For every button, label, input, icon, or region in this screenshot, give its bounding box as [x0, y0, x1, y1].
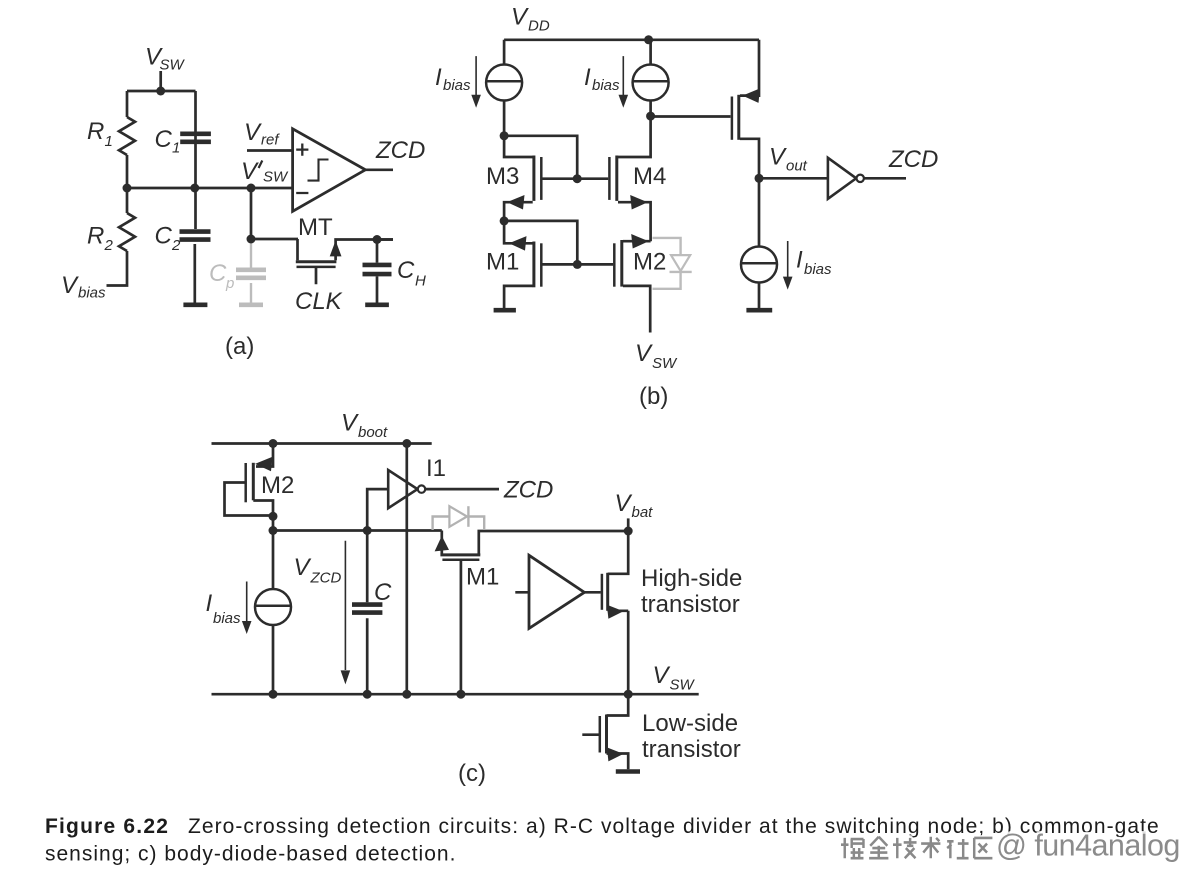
svg-text:bias: bias — [213, 610, 241, 627]
svg-text:C: C — [374, 579, 392, 606]
svg-text:boot: boot — [358, 424, 388, 441]
svg-text:1: 1 — [172, 140, 180, 157]
svg-text:V: V — [244, 119, 262, 146]
svg-text:ref: ref — [261, 132, 280, 149]
svg-text:M4: M4 — [633, 163, 666, 190]
svg-text:DD: DD — [528, 18, 550, 35]
svg-text:2: 2 — [104, 237, 114, 254]
svg-text:SW: SW — [263, 169, 289, 186]
svg-text:C: C — [155, 223, 173, 250]
svg-text:I: I — [435, 64, 442, 91]
svg-text:V: V — [511, 4, 529, 31]
svg-text:sensing; c) body-diode-based d: sensing; c) body-diode-based detection. — [45, 843, 456, 866]
svg-text:transistor: transistor — [641, 591, 740, 618]
svg-text:I1: I1 — [426, 455, 446, 482]
svg-text:M2: M2 — [261, 472, 294, 499]
svg-text:R: R — [87, 223, 104, 250]
svg-text:V: V — [615, 490, 633, 517]
svg-text:bat: bat — [632, 504, 654, 521]
svg-text:ZCD: ZCD — [375, 137, 425, 164]
svg-text:out: out — [786, 158, 808, 175]
svg-text:transistor: transistor — [642, 736, 741, 763]
svg-text:M3: M3 — [486, 163, 519, 190]
svg-text:V: V — [241, 158, 259, 185]
svg-text:V: V — [294, 554, 312, 581]
svg-text:Figure 6.22: Figure 6.22 — [45, 815, 169, 838]
svg-text:I: I — [584, 64, 591, 91]
svg-text:SW: SW — [652, 355, 678, 372]
svg-text:V: V — [653, 662, 671, 689]
svg-text:V: V — [769, 144, 787, 171]
svg-text:High-side: High-side — [641, 565, 742, 592]
svg-text:ZCD: ZCD — [888, 146, 938, 173]
svg-text:H: H — [415, 273, 426, 290]
svg-text:SW: SW — [670, 677, 696, 694]
svg-text:(a): (a) — [225, 333, 254, 360]
svg-text:V: V — [341, 410, 359, 437]
svg-text:M1: M1 — [466, 564, 499, 591]
svg-text:MT: MT — [298, 214, 333, 241]
svg-text:ZCD: ZCD — [310, 570, 342, 587]
svg-text:I: I — [796, 247, 803, 274]
svg-text:CLK: CLK — [295, 288, 343, 315]
svg-text:SW: SW — [160, 57, 186, 74]
svg-text:C: C — [155, 126, 173, 153]
svg-text:C: C — [209, 260, 227, 287]
svg-text:(c): (c) — [458, 760, 486, 787]
svg-text:1: 1 — [105, 133, 113, 150]
svg-text:p: p — [225, 275, 234, 292]
svg-text:Low-side: Low-side — [642, 710, 738, 737]
svg-text:I: I — [206, 590, 213, 617]
svg-text:2: 2 — [171, 237, 181, 254]
svg-text:V: V — [635, 340, 653, 367]
svg-text:C: C — [397, 257, 415, 284]
svg-text:M2: M2 — [633, 249, 666, 276]
svg-text:R: R — [87, 118, 104, 145]
svg-text:M1: M1 — [486, 249, 519, 276]
svg-text:bias: bias — [443, 77, 471, 94]
svg-text:bias: bias — [78, 285, 106, 302]
svg-text:bias: bias — [592, 77, 620, 94]
svg-text:bias: bias — [804, 261, 832, 278]
svg-text:ZCD: ZCD — [503, 477, 553, 504]
svg-text:@ fun4analog: @ fun4analog — [996, 829, 1180, 863]
svg-text:V: V — [61, 272, 79, 299]
svg-text:(b): (b) — [639, 383, 668, 410]
